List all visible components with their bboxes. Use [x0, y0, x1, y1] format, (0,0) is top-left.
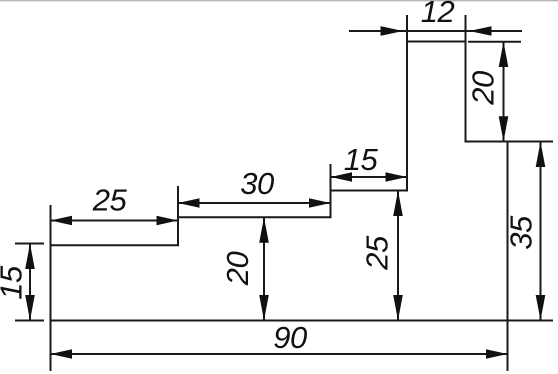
svg-text:90: 90	[273, 320, 307, 355]
svg-text:20: 20	[466, 71, 501, 106]
svg-text:25: 25	[92, 183, 128, 218]
svg-text:25: 25	[360, 235, 395, 271]
svg-text:35: 35	[504, 215, 539, 250]
svg-text:15: 15	[344, 142, 379, 177]
svg-text:30: 30	[240, 166, 274, 201]
svg-text:12: 12	[421, 0, 455, 29]
svg-text:20: 20	[220, 252, 255, 287]
svg-text:15: 15	[0, 265, 29, 300]
